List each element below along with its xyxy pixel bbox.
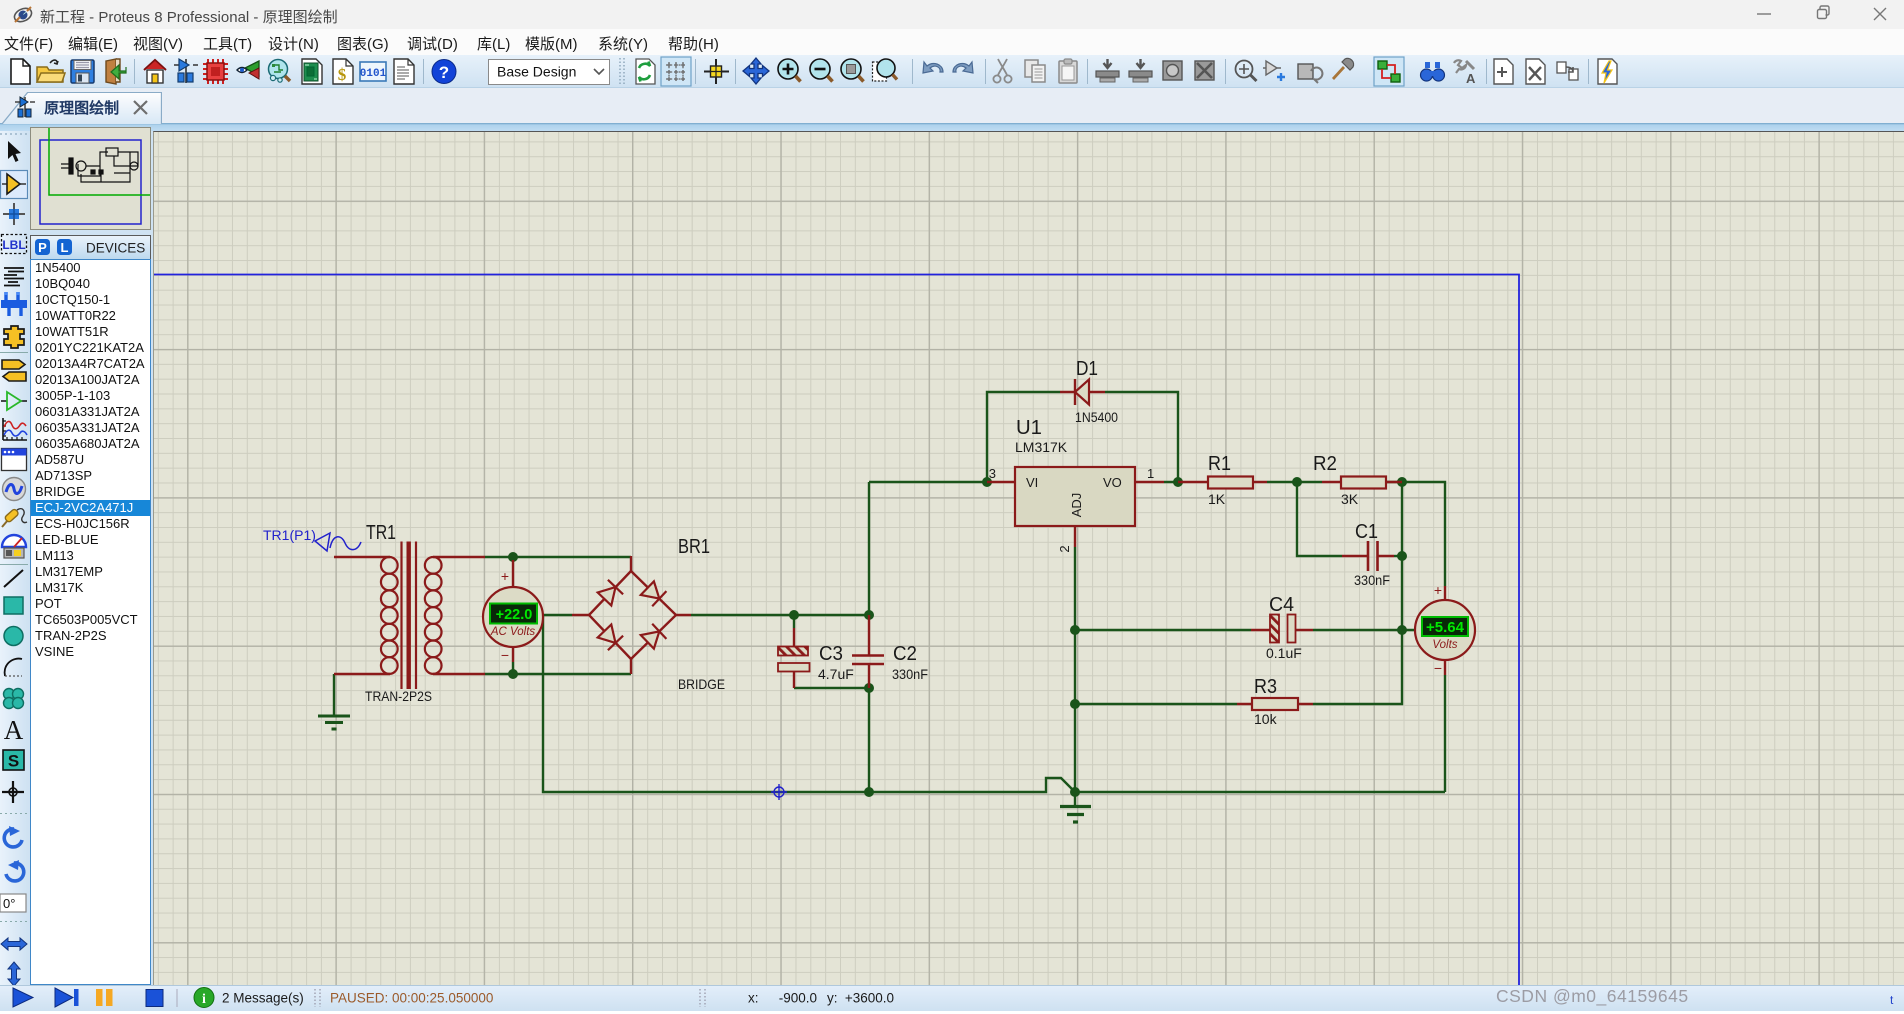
svg-text:0101: 0101 xyxy=(360,68,387,80)
svg-text:TR1(P1): TR1(P1) xyxy=(263,527,316,543)
svg-text:1: 1 xyxy=(1147,466,1154,481)
svg-text:R3: R3 xyxy=(1254,676,1277,698)
svg-text:x:: x: xyxy=(748,991,759,1006)
svg-text:LM317K: LM317K xyxy=(1015,439,1068,455)
svg-text:330nF: 330nF xyxy=(892,666,928,682)
svg-text:+3600.0: +3600.0 xyxy=(845,991,894,1006)
svg-text:10k: 10k xyxy=(1254,711,1278,727)
svg-text:−: − xyxy=(501,647,509,663)
svg-text:2: 2 xyxy=(1057,545,1072,552)
svg-text:VI: VI xyxy=(1026,475,1038,490)
svg-text:LBL: LBL xyxy=(2,238,25,252)
svg-text:Base Design: Base Design xyxy=(497,64,576,80)
svg-text:$: $ xyxy=(338,65,347,84)
svg-text:TRAN-2P2S: TRAN-2P2S xyxy=(365,688,432,704)
svg-text:3K: 3K xyxy=(1341,491,1359,507)
svg-text:330nF: 330nF xyxy=(1354,572,1390,588)
svg-text:+5.64: +5.64 xyxy=(1426,619,1465,636)
svg-text:-900.0: -900.0 xyxy=(779,991,817,1006)
svg-text:4.7uF: 4.7uF xyxy=(818,666,854,682)
svg-text:BRIDGE: BRIDGE xyxy=(678,676,725,692)
svg-text:3: 3 xyxy=(989,466,996,481)
svg-text:1N5400: 1N5400 xyxy=(1075,409,1118,425)
svg-text:P: P xyxy=(38,240,47,255)
svg-text:ADJ: ADJ xyxy=(1069,493,1084,518)
svg-text:i: i xyxy=(202,992,206,1007)
svg-text:Volts: Volts xyxy=(1432,639,1457,651)
svg-text:−: − xyxy=(1434,660,1442,676)
svg-text:U1: U1 xyxy=(1016,417,1042,439)
svg-text:VO: VO xyxy=(1103,475,1122,490)
svg-text:C3: C3 xyxy=(819,643,843,665)
svg-text:DEVICES: DEVICES xyxy=(86,241,145,256)
svg-text:R1: R1 xyxy=(1208,453,1231,475)
svg-text:C1: C1 xyxy=(1355,521,1378,543)
svg-text:C4: C4 xyxy=(1269,594,1294,616)
svg-text:+22.0: +22.0 xyxy=(496,607,533,623)
svg-text:y:: y: xyxy=(827,991,838,1006)
svg-text:C2: C2 xyxy=(893,643,917,665)
svg-text:R2: R2 xyxy=(1313,453,1337,475)
svg-text:2 Message(s): 2 Message(s) xyxy=(222,991,304,1006)
svg-text:S: S xyxy=(8,752,19,771)
svg-text:A: A xyxy=(1466,71,1476,86)
svg-text:L: L xyxy=(61,240,69,255)
svg-text:PAUSED: 00:00:25.050000: PAUSED: 00:00:25.050000 xyxy=(330,991,493,1006)
svg-text:1K: 1K xyxy=(1208,491,1226,507)
svg-text:+: + xyxy=(501,568,509,584)
svg-text:0.1uF: 0.1uF xyxy=(1266,645,1302,661)
svg-text:A: A xyxy=(4,715,24,745)
svg-text:+: + xyxy=(1434,582,1442,598)
svg-text:?: ? xyxy=(439,63,449,82)
svg-text:D1: D1 xyxy=(1076,358,1098,380)
svg-text:AC Volts: AC Volts xyxy=(490,626,536,638)
svg-text:BR1: BR1 xyxy=(678,536,710,558)
svg-text:TR1: TR1 xyxy=(366,522,396,544)
svg-text:0°: 0° xyxy=(3,896,15,911)
